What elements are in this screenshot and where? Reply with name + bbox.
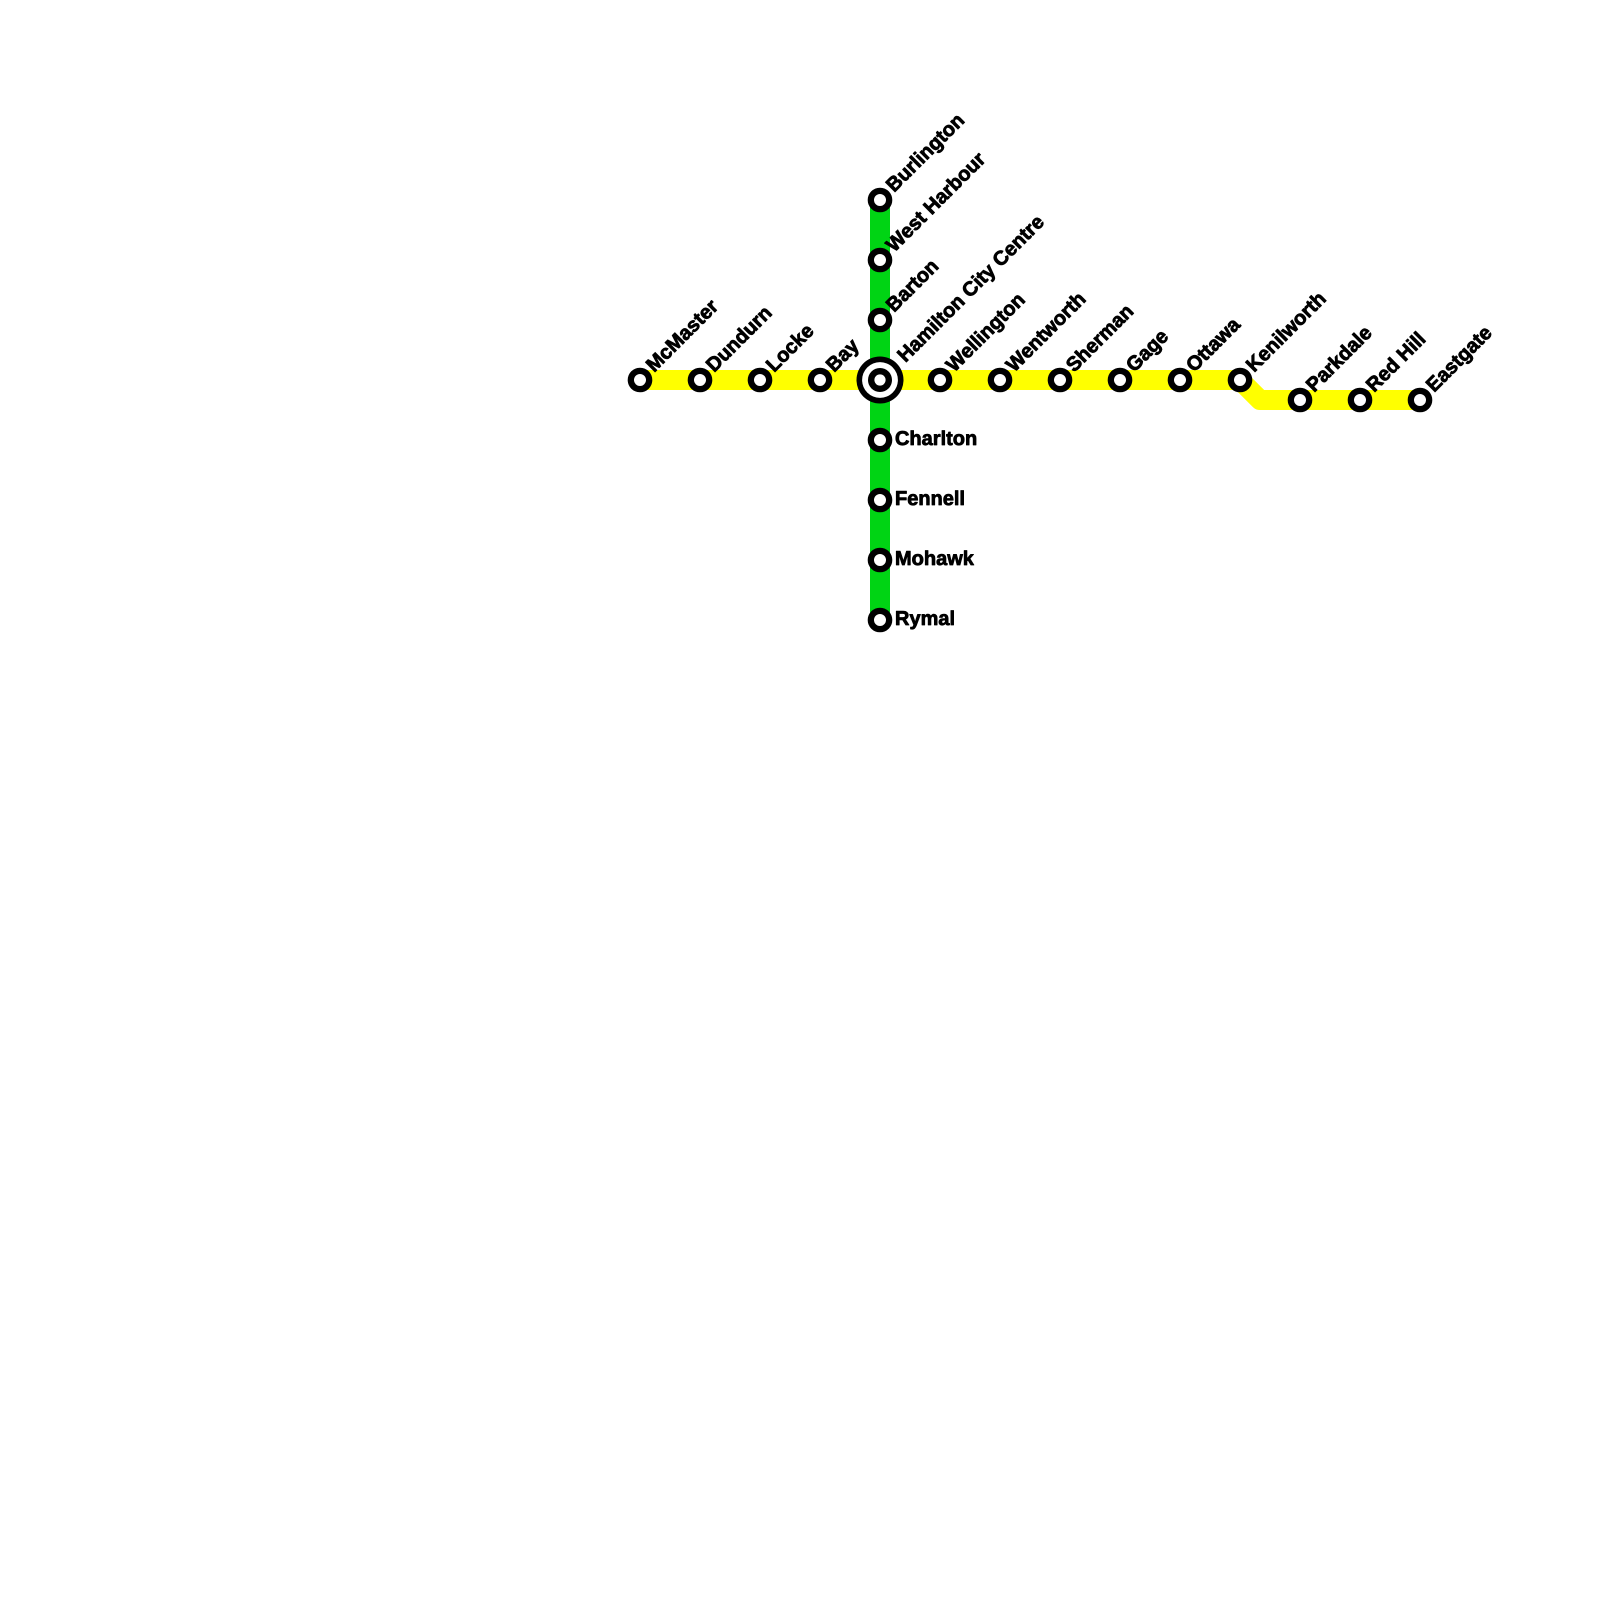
station Wellington <box>931 292 1028 390</box>
station Locke <box>751 322 815 389</box>
station Dundurn <box>691 305 772 390</box>
station Bay <box>811 337 863 389</box>
yellow B-Line: McMaster to Eastgate (horizontal with jog after Kenilworth) <box>640 380 1420 400</box>
station Rymal <box>871 611 954 630</box>
station Eastgate <box>1411 325 1496 409</box>
station Burlington <box>871 112 968 209</box>
station Parkdale <box>1291 324 1373 409</box>
station Red Hill <box>1351 331 1426 409</box>
station Fennell <box>871 491 964 510</box>
station Charlton <box>871 431 976 450</box>
station Ottawa <box>1171 316 1242 389</box>
station Sherman <box>1051 303 1134 389</box>
station McMaster <box>631 298 719 389</box>
station Wentworth <box>991 291 1086 389</box>
station Mohawk <box>871 551 974 570</box>
station Gage <box>1111 328 1172 389</box>
station Barton <box>871 258 939 329</box>
green A-Line: Burlington to Rymal (vertical trunk) <box>870 200 890 620</box>
interchange station Hamilton City Centre <box>857 213 1048 403</box>
station Kenilworth <box>1231 290 1327 389</box>
station West Harbour <box>871 150 987 269</box>
